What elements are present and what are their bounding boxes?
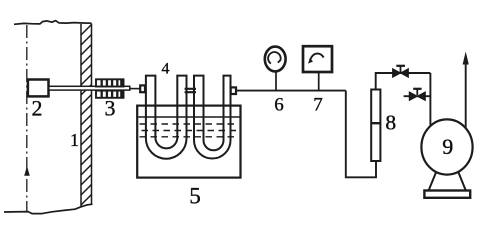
water level (solid surface) bbox=[138, 116, 239, 118]
wire: main line to gauges bbox=[236, 90, 346, 92]
pump stand legs bbox=[429, 170, 466, 191]
wire: flowmeter top to valve line bbox=[376, 73, 431, 90]
svg-text:1: 1 bbox=[70, 130, 79, 150]
valve V2 (vent) bbox=[404, 95, 431, 97]
gland 3 (ribbed fitting, top row) bbox=[96, 79, 124, 86]
flowmeter 8 bbox=[371, 90, 380, 162]
svg-text:3: 3 bbox=[105, 96, 116, 121]
bridge tube between U-tubes bbox=[185, 89, 196, 92]
svg-text:8: 8 bbox=[385, 110, 396, 134]
outlet fitting nub bbox=[231, 87, 236, 94]
pump 9 (blower circle) bbox=[421, 119, 472, 174]
exhaust arrow line bbox=[465, 63, 467, 132]
duct centerline (dash-dot) bbox=[26, 25, 28, 211]
svg-text:6: 6 bbox=[274, 94, 284, 115]
svg-text:7: 7 bbox=[313, 94, 323, 115]
break line top (duct broken edge) bbox=[14, 21, 92, 25]
gland 3 (ribbed fitting, bottom row) bbox=[96, 91, 124, 98]
svg-text:4: 4 bbox=[162, 60, 170, 77]
inlet fitting nub bbox=[140, 85, 145, 92]
U-tube 4 (second U, capped legs) bbox=[194, 76, 231, 159]
probe rod (through duct and wall) bbox=[49, 86, 130, 90]
pump base plate bbox=[424, 191, 470, 198]
wire: probe to U-tube inlet bbox=[130, 88, 140, 90]
duct wall 1 (hatched section) bbox=[81, 24, 92, 208]
wire: valve line down to pump inlet bbox=[429, 73, 431, 132]
indicator 7 (meter box) bbox=[318, 73, 320, 91]
svg-text:5: 5 bbox=[189, 184, 201, 209]
valve V1 bbox=[393, 69, 401, 78]
sensor body 2 bbox=[28, 80, 49, 97]
water level (dashed rows) bbox=[140, 123, 239, 125]
U-tube 4 (first U, capped legs) bbox=[146, 76, 187, 159]
svg-text:2: 2 bbox=[32, 96, 43, 121]
svg-text:9: 9 bbox=[442, 134, 453, 159]
break line bottom (duct broken edge) bbox=[4, 204, 93, 213]
flow arrow (up) bbox=[24, 166, 30, 176]
bath 5 (water tank) bbox=[137, 106, 240, 178]
wire: drop to flowmeter bottom bbox=[346, 91, 376, 178]
gauge 6 (pressure gauge) bbox=[275, 72, 277, 91]
